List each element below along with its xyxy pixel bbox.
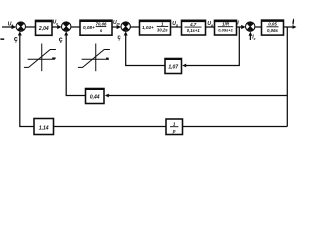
arrowhead into sum2 [57,25,61,29]
block integrator 1/p [166,119,183,135]
svg-text:0,05: 0,05 [268,22,277,27]
wire current feedback to sum3 [126,35,165,66]
svg-text:1,14: 1,14 [39,126,49,132]
arrowhead output [293,25,297,29]
summing junction S2 [61,22,70,31]
svg-text:1,07: 1,07 [168,64,178,70]
svg-text:1,04+: 1,04+ [142,25,154,30]
wire block4 to block5 [206,26,215,28]
svg-text:ç: ç [59,36,63,43]
saturation characteristic 1 [24,44,56,72]
summing junction S4 [246,22,255,31]
summing junction S1 [16,22,25,31]
block current feedback gain [165,59,182,74]
summing junction S3 [121,22,130,31]
wire speed/position tap vertical [286,27,288,127]
wire position feedback to sum1 [20,35,34,127]
wire input [2,26,14,28]
arrowhead into sum3 [117,25,122,29]
arrowhead feedback into sum2 [64,31,68,35]
block B1 gain 2.04 [36,20,53,35]
wire sum2 to block2 [71,26,80,28]
svg-text:2,04: 2,04 [38,26,49,32]
block B5 armature [215,20,237,35]
wire block1 to sum2 [52,26,60,28]
svg-text:0,1s+1: 0,1s+1 [187,28,201,33]
wire sum1 to block1 [25,26,35,28]
wire sum3 to block3 [130,26,139,28]
wire sum4 to block6 [255,26,262,28]
wire current tap vertical [185,27,240,66]
wire block2 to sum3 [112,26,119,28]
block speed feedback gain [86,89,105,104]
arrowhead into sum4 [241,25,246,29]
wire speed feedback to sum2 [66,35,85,96]
label output tick [292,18,294,24]
wire disturbance into sum4 [249,34,251,40]
wire block5 to sum4 [237,26,244,28]
saturation characteristic 2 [78,44,110,72]
svg-text:s: s [100,28,103,33]
arrowhead feedback into sum3 [124,31,128,35]
svg-text:0,09s+1: 0,09s+1 [218,28,233,33]
svg-text:ç: ç [14,36,18,43]
svg-text:0,08+: 0,08+ [83,25,95,30]
label dash left edge [0,38,4,40]
svg-text:1: 1 [173,122,176,127]
svg-text:p: p [172,128,176,133]
wire position feedback middle [54,126,167,128]
wire speed feedback horizontal [108,95,288,97]
svg-text:30,2s: 30,2s [157,27,168,32]
block position gain 1.14 [34,119,54,135]
arrowhead into speed feedback block [105,94,109,98]
wire block3 to block4 [171,26,182,28]
svg-text:1/R: 1/R [222,22,230,27]
arrowhead disturbance into sum4 [249,32,253,36]
wire position feedback horizontal right [183,126,288,128]
svg-text:0,44: 0,44 [90,94,100,100]
block B2 speed PI regulator [80,20,112,35]
block B3 current PI regulator [140,20,171,35]
wire block6 to output [284,26,295,28]
svg-text:4,7: 4,7 [189,22,197,27]
svg-text:70,06: 70,06 [96,22,108,27]
svg-text:0,06s: 0,06s [267,28,279,33]
block B4 converter [182,20,206,35]
arrowhead into current feedback block [182,64,186,68]
arrowhead feedback into sum1 [18,31,22,35]
block B6 mechanical [262,20,284,35]
arrowhead into sum1 [12,25,17,29]
